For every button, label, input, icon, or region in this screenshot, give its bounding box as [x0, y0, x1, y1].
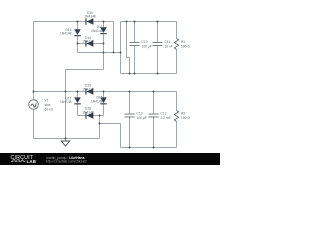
svg-text:V1: V1 [45, 99, 49, 103]
svg-text:C11: C11 [165, 40, 171, 44]
svg-text:100 Ω: 100 Ω [181, 116, 190, 120]
svg-text:2.2 mF: 2.2 mF [161, 116, 171, 120]
svg-text:10 nF: 10 nF [165, 45, 173, 49]
svg-text:http://circuitlab.com/c6kzat2: http://circuitlab.com/c6kzat2 [46, 160, 87, 164]
svg-text:1N4148: 1N4148 [60, 32, 72, 36]
svg-text:R1: R1 [181, 40, 185, 44]
svg-text:C12: C12 [161, 112, 167, 116]
svg-text:1N4148: 1N4148 [82, 87, 94, 91]
svg-text:500 Ω: 500 Ω [181, 45, 190, 49]
svg-text:100 µF: 100 µF [137, 116, 147, 120]
svg-text:C10: C10 [142, 40, 148, 44]
svg-text:C13: C13 [137, 112, 143, 116]
svg-text:LAB: LAB [27, 159, 37, 164]
svg-text:R2: R2 [181, 112, 185, 116]
svg-text:1N4148: 1N4148 [91, 99, 103, 103]
svg-text:1N4148: 1N4148 [84, 15, 96, 19]
svg-text:1N4148: 1N4148 [82, 39, 94, 43]
svg-text:100 µF: 100 µF [142, 45, 152, 49]
svg-text:sine: sine [45, 103, 51, 107]
svg-text:1N4148: 1N4148 [60, 100, 72, 104]
svg-text:1N4148: 1N4148 [82, 110, 94, 114]
svg-text:1N4148: 1N4148 [91, 29, 103, 33]
svg-text:60 Hz: 60 Hz [45, 108, 54, 112]
